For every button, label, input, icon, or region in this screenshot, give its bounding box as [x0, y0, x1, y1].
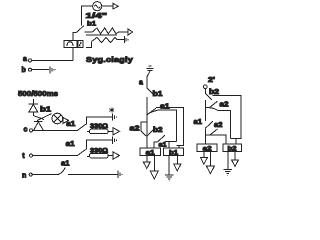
- antenna symbol left circuit: [149, 65, 152, 67]
- AC source G1: [93, 2, 102, 11]
- wire horizontal to box b2: [205, 135, 226, 144]
- svg-text:Syg.ciagly: Syg.ciagly: [86, 55, 134, 64]
- arrow down 3: [174, 164, 181, 171]
- box a1: [140, 148, 160, 156]
- switch a1 left circuit: [147, 108, 156, 115]
- wire a1 to rail: [156, 108, 184, 146]
- wire a line: [32, 59, 74, 61]
- arrow row t: [113, 152, 120, 159]
- s-wire: [209, 108, 217, 111]
- battery B2 on b: [49, 66, 51, 73]
- diode D2: [34, 121, 43, 123]
- wire box a1 down right: [153, 155, 155, 171]
- wire resistor to arrow row c: [108, 130, 113, 132]
- arrow down 5: [206, 166, 214, 174]
- box a2: [197, 144, 217, 152]
- wire to box b1: [165, 141, 177, 143]
- wire c line: [33, 130, 78, 132]
- switch a1 row n: [58, 167, 65, 174]
- svg-text:b2: b2: [228, 145, 237, 152]
- svg-text:a1: a1: [66, 141, 75, 148]
- main to box a2: [204, 128, 206, 144]
- wire box b2 down to ground: [227, 151, 229, 169]
- svg-text:a2: a2: [214, 122, 223, 129]
- svg-text:n: n: [22, 172, 26, 179]
- ground right circuit: [224, 168, 232, 170]
- svg-text:a1: a1: [194, 119, 203, 126]
- arrow down 1: [143, 162, 150, 169]
- svg-text:a: a: [23, 56, 27, 63]
- svg-text:b1: b1: [87, 21, 96, 28]
- wiper line: [86, 34, 117, 36]
- arrow down 4: [200, 157, 207, 164]
- wire to rail 2: [218, 110, 231, 138]
- arrow down 2: [150, 171, 158, 179]
- svg-text:b: b: [22, 67, 26, 74]
- wire n line right: [68, 174, 117, 176]
- switch a1 row c: [77, 124, 86, 130]
- svg-text:b1: b1: [169, 149, 178, 156]
- svg-text:b1: b1: [40, 107, 51, 114]
- battery B3 row c: [111, 113, 113, 120]
- arrow row c: [113, 128, 120, 135]
- svg-text:a: a: [139, 79, 143, 86]
- resistor 330 row c: [89, 129, 108, 134]
- wire top feed to AC source: [82, 6, 93, 26]
- switch b1 left circuit: [147, 88, 154, 95]
- switch b1 top: [77, 26, 84, 33]
- wire to resistor row t: [87, 156, 89, 158]
- wire box b2 down right: [234, 151, 236, 160]
- a2 detour: [141, 122, 147, 137]
- wire up to battery row t: [86, 140, 111, 149]
- arrow down 6: [232, 160, 239, 167]
- box b2: [223, 144, 242, 152]
- ringer box: [64, 40, 77, 47]
- svg-text:500/500ms: 500/500ms: [18, 89, 58, 98]
- svg-text:a2: a2: [203, 145, 212, 152]
- wire up to battery row c: [86, 117, 111, 124]
- wire t line: [33, 155, 78, 157]
- wire down: [146, 77, 148, 88]
- wire down: [146, 97, 148, 122]
- switch a1 right circuit: [205, 121, 213, 128]
- battery B1 right: [123, 36, 125, 43]
- svg-text:330Ω: 330Ω: [90, 123, 109, 130]
- asterisk: [110, 107, 115, 112]
- wire down to box a1: [146, 137, 148, 148]
- ground left circuit: [165, 174, 173, 176]
- wire to rail right: [213, 95, 242, 138]
- svg-text:a2: a2: [220, 102, 229, 109]
- wire n line left: [32, 174, 58, 176]
- resistor R2 zigzag bottom: [92, 37, 124, 42]
- wire resistor to arrow row t: [108, 155, 113, 157]
- arrow out resistor: [128, 29, 133, 35]
- wire AC to arrow: [102, 5, 113, 7]
- a2 top switch: [205, 101, 217, 107]
- svg-text:b2: b2: [153, 127, 163, 134]
- wire b line: [32, 69, 50, 71]
- wire box b1 down to ground: [168, 155, 170, 174]
- terminal circle right circuit: [203, 85, 207, 89]
- box b1: [164, 148, 184, 156]
- svg-text:a1: a1: [160, 103, 170, 110]
- wire box a1 down left: [146, 155, 148, 161]
- main down right circuit: [204, 100, 206, 121]
- switch b2 left circuit: [147, 128, 156, 137]
- wire box a2 down right: [209, 151, 211, 166]
- hook wire R2 left: [86, 42, 92, 48]
- arrow out top: [113, 3, 118, 9]
- svg-text:330Ω: 330Ω: [90, 147, 109, 154]
- switch blade a: [37, 114, 52, 121]
- svg-text:a1: a1: [66, 121, 75, 128]
- ringer box 2: [78, 40, 83, 47]
- svg-text:a1: a1: [61, 161, 70, 168]
- switch a2 bottom right circuit: [210, 129, 218, 135]
- diode D1: [32, 99, 34, 104]
- svg-text:1/4": 1/4": [86, 11, 108, 20]
- svg-text:a1: a1: [159, 141, 167, 148]
- svg-text:a2: a2: [130, 125, 140, 132]
- wire jog to ringer: [73, 32, 77, 40]
- resistor R1 zigzag top: [93, 28, 129, 34]
- flex wire: [33, 116, 44, 120]
- svg-text:c: c: [24, 127, 28, 134]
- lead antenna: [147, 71, 150, 77]
- switch b2 right circuit: [205, 94, 212, 100]
- battery B4 row t: [111, 137, 113, 144]
- lamp H1: [52, 113, 63, 124]
- switch a1 bottom left circuit: [154, 142, 158, 148]
- wire ringer to a line: [72, 48, 74, 61]
- svg-text:b2: b2: [209, 89, 219, 96]
- resistor 330 row t: [89, 153, 108, 158]
- wire box b1 down right: [176, 155, 178, 164]
- wire switch to resistors: [85, 31, 93, 33]
- battery B5 row n: [117, 171, 119, 179]
- lead down: [204, 89, 206, 94]
- svg-text:a1: a1: [146, 149, 155, 156]
- svg-text:2': 2': [208, 77, 215, 84]
- switch a1 row t: [77, 149, 86, 155]
- arrow lamp out: [63, 117, 68, 123]
- svg-text:b1: b1: [153, 91, 163, 98]
- wire to resistor row c: [87, 130, 89, 132]
- wire box a2 down left: [203, 151, 205, 157]
